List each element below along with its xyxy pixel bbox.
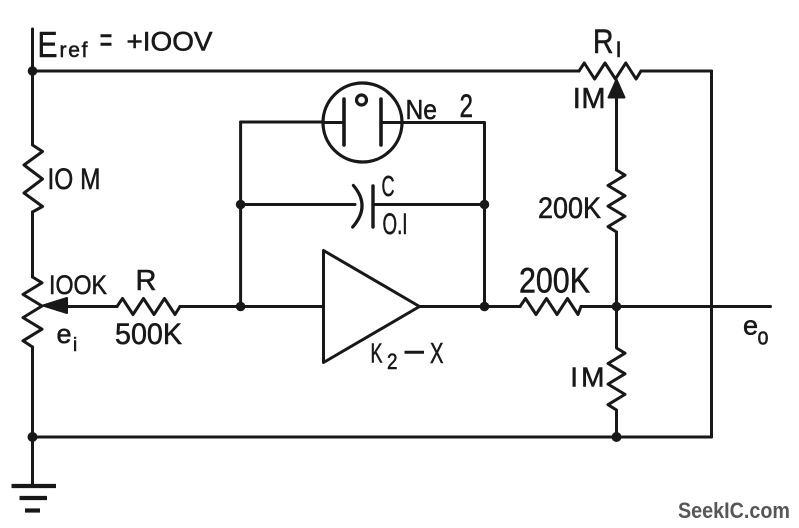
- junction dot output node: [612, 302, 622, 312]
- svg-text:i: i: [73, 335, 77, 356]
- junction dot cap row left: [236, 200, 246, 210]
- svg-text:IO M: IO M: [48, 163, 101, 196]
- neon lamp right electrode plate: [379, 99, 383, 145]
- wire lamp row left segment: [241, 121, 323, 124]
- resistor 1M lower right vertical zigzag: [608, 307, 625, 438]
- potentiometer 100K zigzag: [23, 277, 42, 347]
- potentiometer R1 wiper arrow: [609, 80, 625, 98]
- capacitor C curved plate: [353, 186, 362, 228]
- wire wiper arrow to resistor R: [60, 305, 117, 308]
- wire resistor R to op-amp input: [180, 305, 324, 308]
- svg-text:IOOK: IOOK: [49, 270, 107, 300]
- wire R1 wiper down to 200K resistor: [615, 94, 618, 170]
- resistor 10M left vertical zigzag: [24, 71, 43, 212]
- svg-text:I: I: [616, 37, 622, 62]
- junction dot cap row right: [480, 200, 490, 210]
- neon lamp right electrode lead: [381, 121, 402, 124]
- wire lamp row right segment: [402, 123, 485, 307]
- svg-text:IM: IM: [573, 83, 606, 115]
- svg-text:2: 2: [387, 349, 398, 374]
- svg-text:2: 2: [460, 88, 474, 124]
- wire bottom rail: [33, 436, 712, 439]
- svg-text:ref: ref: [60, 39, 88, 62]
- wire capacitor row right segment: [373, 203, 485, 206]
- svg-text:SeekIC.com: SeekIC.com: [678, 498, 790, 523]
- neon lamp gas dot indicator: [357, 95, 367, 105]
- op-amp K2-X triangle: [324, 251, 420, 363]
- capacitor C straight plate: [371, 186, 374, 227]
- ground: [31, 437, 34, 486]
- svg-text:e: e: [57, 319, 72, 349]
- wire op-amp output: [420, 305, 521, 308]
- node Eref supply stub: [31, 29, 34, 71]
- svg-text:X: X: [430, 338, 444, 370]
- svg-text:200K: 200K: [538, 192, 601, 225]
- svg-text:K: K: [371, 338, 383, 369]
- potentiometer 100K wiper arrow: [43, 298, 67, 313]
- svg-text:R: R: [593, 23, 614, 61]
- resistor 200K output horizontal zigzag: [520, 299, 581, 315]
- svg-text:200K: 200K: [519, 262, 590, 301]
- wire 10M to 100K pot: [31, 212, 34, 277]
- wire left feedback vertical: [239, 122, 242, 307]
- svg-text:C: C: [382, 171, 395, 203]
- svg-text:O.I: O.I: [383, 208, 408, 241]
- junction dot bottom left: [28, 432, 38, 442]
- junction dot bottom 1M: [612, 432, 622, 442]
- wire top rail left of R1: [33, 70, 580, 73]
- junction dot op-amp output node: [480, 302, 490, 312]
- svg-text:o: o: [758, 324, 769, 351]
- neon lamp left electrode plate: [342, 99, 346, 145]
- neon lamp left electrode lead: [323, 121, 344, 124]
- wire output node to eo: [581, 305, 771, 308]
- svg-text:IM: IM: [570, 362, 607, 393]
- wire 200K to output node: [615, 232, 618, 307]
- svg-text:E: E: [38, 24, 58, 65]
- svg-text:Ne: Ne: [406, 94, 438, 125]
- resistor R 500K horizontal zigzag: [117, 299, 180, 315]
- wire 100K pot to bottom rail: [31, 347, 34, 437]
- svg-text:e: e: [743, 311, 758, 341]
- junction dot Eref node: [28, 66, 38, 76]
- junction dot op-amp input node: [236, 302, 246, 312]
- svg-text:+IOOV: +IOOV: [127, 27, 213, 57]
- svg-text:500K: 500K: [115, 318, 182, 351]
- svg-text:R: R: [136, 265, 157, 297]
- potentiometer R1 1M zigzag: [579, 63, 641, 79]
- resistor 200K upper right vertical zigzag: [608, 170, 625, 232]
- wire top rail right of R1: [641, 70, 712, 73]
- neon lamp Ne 2 envelope circle: [323, 83, 402, 162]
- wire right rail: [710, 71, 713, 437]
- wire capacitor row left segment: [241, 203, 355, 206]
